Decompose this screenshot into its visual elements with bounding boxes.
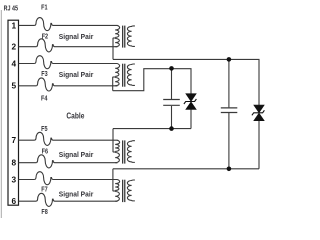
svg-text:4: 4 [11, 58, 16, 68]
svg-text:F6: F6 [42, 149, 48, 156]
svg-text:Signal Pair: Signal Pair [59, 192, 94, 199]
svg-text:F8: F8 [41, 209, 47, 216]
svg-text:F3: F3 [41, 71, 47, 78]
svg-text:Cable: Cable [66, 111, 84, 120]
svg-text:Signal Pair: Signal Pair [59, 152, 94, 159]
svg-text:Signal Pair: Signal Pair [59, 34, 94, 41]
svg-text:1: 1 [11, 20, 16, 30]
svg-text:5: 5 [11, 81, 16, 91]
svg-text:F4: F4 [41, 95, 47, 102]
svg-text:8: 8 [11, 158, 16, 168]
svg-text:RJ 45: RJ 45 [4, 4, 19, 13]
svg-text:F1: F1 [41, 5, 47, 12]
svg-text:F2: F2 [42, 34, 48, 41]
svg-text:F7: F7 [41, 186, 47, 193]
svg-text:6: 6 [11, 196, 16, 206]
svg-text:2: 2 [11, 42, 16, 52]
svg-text:3: 3 [11, 174, 16, 184]
svg-text:Signal Pair: Signal Pair [59, 72, 94, 79]
svg-text:7: 7 [11, 135, 16, 145]
svg-text:F5: F5 [41, 126, 47, 133]
